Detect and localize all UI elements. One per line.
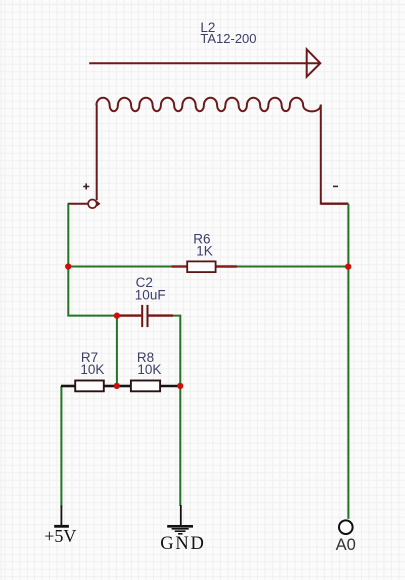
wire: right vertical net from - pin down to A0 bbox=[347, 204, 349, 519]
A0 pin circle bbox=[339, 520, 353, 534]
inductor coil L2 (primary winding) bbox=[96, 98, 320, 112]
wire: from C2 right pin to R8 right junction bbox=[173, 316, 181, 388]
junction dot at R8 right bbox=[177, 383, 183, 389]
GND ground symbol bbox=[167, 505, 193, 534]
resistor R6 bbox=[172, 261, 237, 272]
svg-text:GND: GND bbox=[160, 534, 205, 554]
pin 1 circle (+ terminal) bbox=[88, 200, 97, 209]
junction dot at C2 left bbox=[114, 313, 120, 319]
minus label bbox=[333, 185, 338, 187]
pin 1 chevron marker bbox=[97, 201, 101, 207]
plus label bbox=[83, 183, 89, 189]
current direction arrow of transformer L2 bbox=[89, 49, 320, 76]
wire: horizontal net at R6 row (left) bbox=[68, 266, 172, 268]
+5V supply symbol bbox=[54, 506, 69, 527]
junction dot at right R6 row bbox=[345, 263, 351, 269]
resistor R8 bbox=[117, 381, 180, 392]
pin 2 stub (right, - terminal) bbox=[321, 202, 349, 204]
svg-text:10K: 10K bbox=[137, 362, 161, 377]
wire: left vertical net from + pin down to C2 row bbox=[68, 204, 115, 316]
capacitor C2 bbox=[117, 305, 173, 327]
junction dot at left R6 row bbox=[65, 263, 71, 269]
left pin wire of coil bbox=[96, 105, 98, 201]
wire: vertical from R7 left to +5V bbox=[60, 386, 62, 507]
svg-text:+5V: +5V bbox=[44, 526, 76, 546]
svg-text:1K: 1K bbox=[196, 244, 213, 259]
resistor R7 bbox=[61, 381, 117, 392]
svg-text:A0: A0 bbox=[336, 536, 356, 554]
junction dot between R7 and R8 bbox=[114, 383, 120, 389]
wire: horizontal net at R6 row (right) bbox=[237, 266, 349, 268]
svg-text:TA12-200: TA12-200 bbox=[200, 31, 256, 46]
wire: vertical between C2 junction and R7/R8 junction bbox=[116, 316, 118, 386]
svg-text:10uF: 10uF bbox=[135, 288, 166, 303]
pin 1 stub to net bbox=[68, 203, 89, 205]
wire: vertical from R8 junction down to GND bbox=[179, 385, 181, 506]
right pin wire of coil bbox=[320, 105, 322, 205]
svg-text:10K: 10K bbox=[80, 362, 104, 377]
